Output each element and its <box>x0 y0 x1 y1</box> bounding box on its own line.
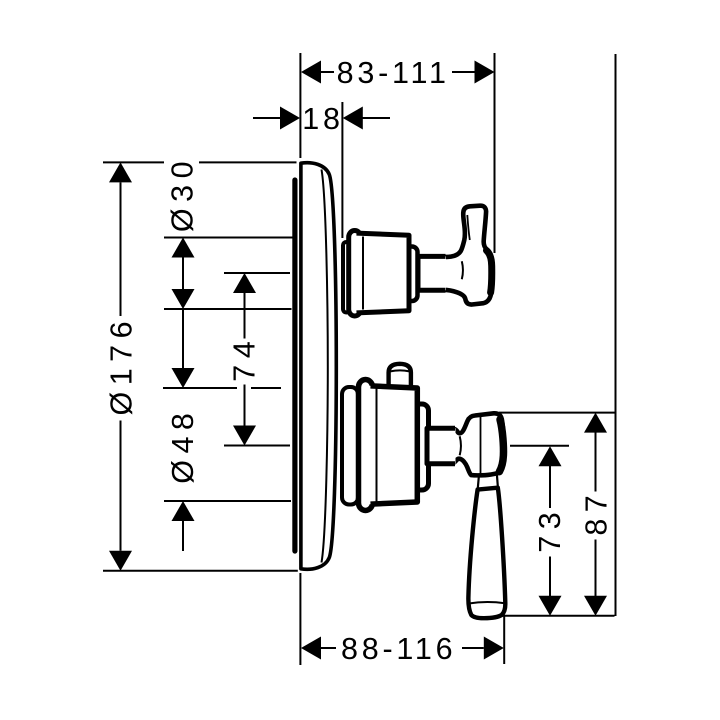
node: arrow O48 bottom (outside pointing up) <box>172 501 195 521</box>
wire: dim O48 upper stem <box>182 309 184 368</box>
wire: right extension line for 83-111 <box>494 53 496 253</box>
node: arrow O30 top <box>172 238 195 258</box>
node: upper handle hub arc <box>462 261 463 279</box>
node: thermo rear flange <box>342 387 358 505</box>
wire: bottom shared tick <box>501 615 615 617</box>
wire: dim 18 left tail <box>253 117 281 119</box>
node: arrow 74 bottom <box>233 426 256 446</box>
svg-text:74: 74 <box>228 335 262 382</box>
node: arrow 87 bottom <box>584 596 607 616</box>
wire: bottom right extension line for 88-116 <box>503 616 505 664</box>
node: arrow 83-111 left <box>301 61 321 84</box>
node: thermo ring face line <box>376 387 378 503</box>
node: plate front inner contour <box>322 170 328 563</box>
node: arrow 88-116 left <box>301 637 321 660</box>
wire: tick 87 top <box>499 412 615 414</box>
node: lever head heavy right edge <box>499 420 503 472</box>
wire: dim O30 line <box>182 256 184 290</box>
wire: dim 18 right tail <box>362 117 390 119</box>
node: arrow O30 bottom <box>172 289 195 309</box>
node: arrow O176 bottom <box>109 551 132 571</box>
node: upper sleeve cylinder <box>358 233 409 313</box>
wire: tick 74 bottom <box>224 445 290 447</box>
node: upper escutcheon ring <box>349 231 361 317</box>
svg-text:Ø30: Ø30 <box>166 155 200 232</box>
node: arrow O176 top <box>109 162 132 182</box>
svg-text:83-111: 83-111 <box>337 56 450 90</box>
node: thermo lever head and flare <box>454 413 505 475</box>
wire: far right extension line <box>615 54 617 616</box>
node: upper rear flange <box>343 242 350 313</box>
node: thermo knob top face line <box>390 370 409 371</box>
node: arrow 87 top <box>584 413 607 433</box>
wire: tick O48 top <box>163 387 237 389</box>
node: lever hub arc <box>460 436 461 455</box>
wire: dim O176 line <box>120 182 122 316</box>
node: arrow 18 right (outside) <box>343 107 363 130</box>
node: lever head inner line <box>480 416 482 474</box>
node: upper stem <box>418 256 446 290</box>
svg-text:18: 18 <box>302 102 344 136</box>
node: arrow O48 top (outside pointing down) <box>172 368 195 388</box>
wire: dim O48 lower stem <box>182 520 184 551</box>
wire: dim 83-111 tails <box>321 71 334 73</box>
svg-text:Ø176: Ø176 <box>105 315 139 416</box>
svg-text:88-116: 88-116 <box>341 632 457 666</box>
wire: tick O176 bottom <box>103 570 298 572</box>
wire: tick 74 top <box>224 272 290 274</box>
wire: dim 74 line <box>244 292 246 339</box>
node: lever grip end cap line <box>469 602 505 604</box>
node: lever collar <box>478 475 498 490</box>
node: upper handle (cross handle side view) <box>444 206 492 305</box>
wire: tick O48 bottom <box>164 500 291 502</box>
wire: tick 73 top <box>510 445 569 447</box>
node: arrow 18 left (outside) <box>280 107 300 130</box>
wire: dim 87 line <box>595 432 597 492</box>
node: arrow 73 top <box>539 446 562 466</box>
wire: tick O30 top <box>164 237 293 239</box>
node: thermo nose collar <box>413 404 429 490</box>
wire: left wall extension line bottom <box>299 573 301 665</box>
node: thermo escutcheon ring <box>359 380 373 511</box>
wire: dim 73 line <box>549 465 551 508</box>
node: arrow 83-111 right <box>475 61 495 84</box>
svg-text:Ø48: Ø48 <box>166 407 200 484</box>
node: arrow 73 bottom <box>539 596 562 616</box>
svg-text:87: 87 <box>580 489 614 536</box>
wire: tick O176 top <box>103 161 164 163</box>
node: plate back rim <box>292 180 297 551</box>
node: thermo sleeve cylinder <box>366 386 417 505</box>
wire: plate front extension line <box>341 102 343 238</box>
node: thermo stem <box>427 428 456 463</box>
wire: tick O30 bottom <box>164 308 292 310</box>
node: plate dome outline <box>301 163 336 570</box>
node: thermo safety knob <box>389 364 411 390</box>
node: arrow 88-116 right <box>484 637 504 660</box>
node: upper handle knob inner line <box>467 215 470 240</box>
svg-text:73: 73 <box>533 506 567 553</box>
node: thermo lever grip <box>468 488 505 619</box>
node: upper nose collar <box>405 247 418 302</box>
node: upper ring face line <box>362 237 364 310</box>
node: upper handle right heavy edge <box>487 251 492 293</box>
node: arrow 74 top <box>233 273 256 293</box>
wire: dim 88-116 tails <box>321 647 336 649</box>
wire: left wall extension line top <box>299 53 301 158</box>
